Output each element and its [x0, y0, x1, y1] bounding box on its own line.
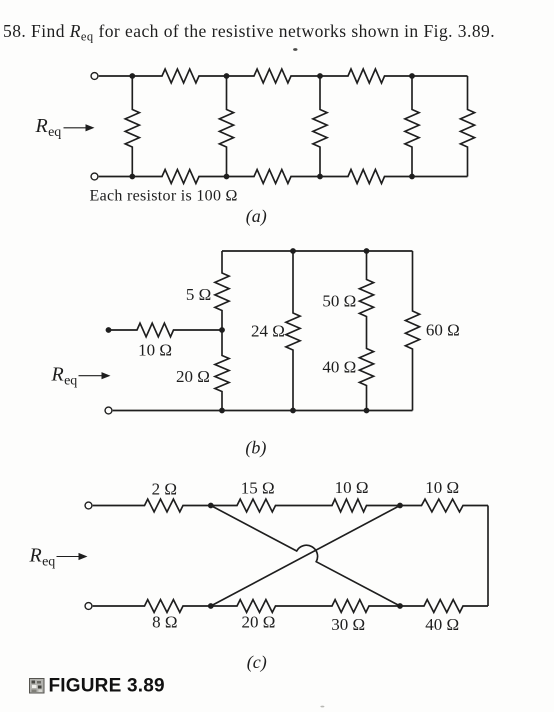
resistor 10ohm (b): [109, 323, 223, 337]
label Each resistor is 100 ohm: [90, 188, 238, 205]
figure caption text FIGURE 3.89: [49, 676, 165, 697]
label 30ohm (c): [331, 615, 365, 634]
node bottom x=132 (a): [129, 174, 135, 180]
node bottom-right junction (c): [397, 603, 403, 609]
svg-text:eq: eq: [42, 555, 55, 570]
svg-text:5 Ω: 5 Ω: [186, 285, 211, 304]
svg-text:(b): (b): [245, 438, 266, 459]
label 2ohm (c): [152, 480, 177, 499]
svg-text:8 Ω: 8 Ω: [152, 613, 177, 632]
label Req (a): [35, 115, 62, 140]
label 50ohm (b): [322, 292, 356, 311]
terminal bottom-left (c): [85, 603, 92, 610]
svg-text:10 Ω: 10 Ω: [425, 478, 459, 497]
resistor 10ohm-a (c): [305, 499, 400, 512]
svg-text:2 Ω: 2 Ω: [152, 480, 177, 499]
node top-right junction (c): [397, 503, 403, 509]
node bottom x=320 (a): [317, 174, 323, 180]
node bottom branch2 (b): [290, 408, 296, 414]
resistor 40ohm (c): [400, 600, 488, 613]
label 60ohm (b): [426, 321, 460, 340]
label 40ohm (b): [322, 358, 356, 377]
resistor 100ohm top-1 (a): [132, 69, 226, 83]
node bottom-left junction (c): [208, 603, 214, 609]
resistor 100ohm bottom-1 (a): [132, 170, 226, 184]
node bottom x=412 (a): [409, 174, 415, 180]
terminal top-left (a): [91, 73, 98, 80]
resistor 100ohm vertical-2 (a): [219, 76, 233, 177]
resistor 100ohm vertical-1 (a): [125, 76, 139, 177]
resistor 30ohm (c): [305, 600, 400, 613]
resistor 100ohm top-3 (a): [320, 69, 412, 83]
svg-text:58. Find Req for each of the r: 58. Find Req for each of the resistive n…: [3, 21, 495, 44]
svg-text:10 Ω: 10 Ω: [335, 478, 369, 497]
resistor 20ohm (b): [215, 330, 229, 411]
svg-text:40 Ω: 40 Ω: [322, 358, 356, 377]
svg-text:15 Ω: 15 Ω: [241, 479, 275, 498]
label 24ohm (b): [251, 322, 285, 341]
label 10ohm-b (c): [425, 478, 459, 497]
node top branch2 (b): [290, 248, 296, 254]
label 10ohm (b): [138, 341, 172, 360]
label (b): [245, 438, 266, 459]
svg-text:eq: eq: [64, 374, 77, 389]
wire top-left (a): [99, 75, 133, 77]
node top x=132 (a): [129, 73, 135, 79]
label 8ohm (c): [152, 613, 177, 632]
terminal bottom-left (b): [105, 407, 112, 414]
resistor 100ohm top-2 (a): [227, 69, 321, 83]
resistor 100ohm vertical-4 (a): [405, 76, 419, 177]
terminal bottom-left (a): [91, 173, 98, 180]
svg-text:30 Ω: 30 Ω: [331, 615, 365, 634]
figure caption icon: [30, 679, 45, 694]
svg-text:20 Ω: 20 Ω: [176, 367, 210, 386]
label Req (c): [29, 545, 56, 570]
resistor 50ohm (b): [359, 251, 373, 332]
arrow Req (c): [57, 553, 88, 560]
label 15ohm (c): [241, 479, 275, 498]
wire diagonal ascending (c): [211, 506, 400, 607]
label 20ohm (c): [241, 613, 275, 632]
resistor 15ohm (c): [211, 499, 305, 512]
label (a): [246, 206, 267, 227]
node top-left junction (c): [208, 503, 214, 509]
label 10ohm-a (c): [335, 478, 369, 497]
svg-text:60 Ω: 60 Ω: [426, 321, 460, 340]
svg-text:R: R: [29, 545, 42, 567]
resistor 100ohm bottom-3 (a): [320, 170, 412, 184]
arrow Req (a): [64, 124, 95, 131]
wire bottom rail (b): [113, 410, 413, 412]
arrow Req (b): [79, 372, 111, 379]
svg-text:FIGURE 3.89: FIGURE 3.89: [49, 676, 165, 697]
resistor 40ohm (b): [359, 332, 373, 411]
resistor 5ohm (b): [215, 251, 229, 330]
svg-text:R: R: [51, 364, 64, 386]
svg-text:eq: eq: [48, 125, 61, 140]
node bottom branch1 (b): [219, 408, 225, 414]
svg-text:24 Ω: 24 Ω: [251, 322, 285, 341]
resistor 8ohm (c): [93, 600, 211, 613]
svg-text:Each resistor is 100 Ω: Each resistor is 100 Ω: [90, 188, 238, 205]
label 40ohm (c): [425, 615, 459, 634]
node top x=320 (a): [317, 73, 323, 79]
title text: [3, 21, 495, 44]
resistor 20ohm (c): [211, 600, 305, 613]
resistor 2ohm (c): [93, 499, 211, 512]
wire top rail (b): [222, 250, 413, 252]
svg-text:R: R: [35, 115, 48, 137]
label 20ohm (b): [176, 367, 210, 386]
svg-text:10 Ω: 10 Ω: [138, 341, 172, 360]
wire bottom-right (a): [412, 176, 468, 178]
label Req (b): [51, 364, 78, 389]
node input (b): [106, 327, 112, 333]
resistor 10ohm-b (c): [400, 499, 488, 512]
wire bottom-left (a): [99, 176, 133, 178]
svg-text:(c): (c): [247, 652, 267, 673]
resistor 100ohm vertical-3 (a): [313, 76, 327, 177]
node top x=226 (a): [224, 73, 230, 79]
node bottom branch3 (b): [364, 408, 370, 414]
wire top-right (a): [412, 75, 468, 77]
label 5ohm (b): [186, 285, 211, 304]
node top branch3 (b): [364, 248, 370, 254]
svg-text:40 Ω: 40 Ω: [425, 615, 459, 634]
wire right edge (c): [487, 506, 489, 607]
svg-text:20 Ω: 20 Ω: [241, 613, 275, 632]
svg-text:50 Ω: 50 Ω: [322, 292, 356, 311]
svg-text:(a): (a): [246, 206, 267, 227]
wire diagonal with crossover hop (c): [211, 506, 400, 607]
node bottom x=226 (a): [224, 174, 230, 180]
resistor 60ohm (b): [405, 251, 419, 411]
node top x=412 (a): [409, 73, 415, 79]
resistor 24ohm (b): [286, 251, 300, 411]
resistor 100ohm vertical-5 (a): [460, 76, 474, 177]
node middle branch1 (b): [219, 327, 225, 333]
terminal top-left (c): [85, 502, 92, 509]
label (c): [247, 652, 267, 673]
resistor 100ohm bottom-2 (a): [227, 170, 321, 184]
